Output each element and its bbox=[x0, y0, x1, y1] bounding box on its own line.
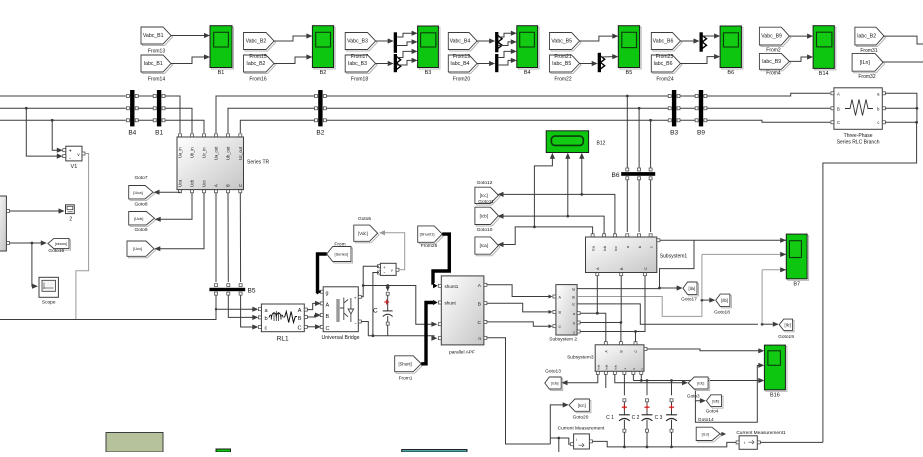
svg-text:Uc_out: Uc_out bbox=[238, 146, 243, 160]
svg-text:A: A bbox=[837, 91, 840, 96]
svg-text:Uc_in: Uc_in bbox=[202, 147, 207, 158]
svg-text:Goto8: Goto8 bbox=[134, 201, 147, 207]
svg-text:-: - bbox=[69, 156, 71, 162]
svg-text:Goto13: Goto13 bbox=[545, 369, 561, 375]
svg-text:Iabc_B1: Iabc_B1 bbox=[144, 61, 163, 67]
svg-text:From16: From16 bbox=[249, 76, 266, 82]
svg-text:[Icfc]: [Icfc] bbox=[697, 382, 704, 386]
svg-text:[Ila]: [Ila] bbox=[688, 286, 695, 291]
svg-text:Iabc_B6: Iabc_B6 bbox=[653, 61, 672, 67]
svg-text:+: + bbox=[354, 297, 357, 302]
svg-text:Icc: Icc bbox=[614, 246, 618, 251]
svg-text:i: i bbox=[744, 440, 745, 445]
svg-text:[Ilc]: [Ilc] bbox=[785, 322, 791, 327]
svg-text:B9: B9 bbox=[697, 129, 705, 136]
svg-text:shunt: shunt bbox=[445, 300, 457, 305]
svg-text:n: n bbox=[478, 337, 481, 342]
svg-text:C: C bbox=[238, 184, 243, 187]
svg-text:C 2: C 2 bbox=[632, 415, 640, 421]
svg-text:Series RLC Branch: Series RLC Branch bbox=[837, 140, 880, 146]
svg-text:RL1: RL1 bbox=[277, 335, 289, 342]
svg-text:B1: B1 bbox=[218, 70, 225, 76]
svg-text:B4: B4 bbox=[128, 129, 136, 136]
svg-text:B: B bbox=[619, 350, 623, 352]
svg-text:C: C bbox=[326, 326, 330, 332]
svg-text:From1: From1 bbox=[399, 376, 413, 382]
svg-text:c: c bbox=[573, 330, 575, 334]
svg-text:From32: From32 bbox=[858, 74, 875, 80]
svg-text:parallel APF: parallel APF bbox=[449, 349, 475, 355]
svg-text:Universal Bridge: Universal Bridge bbox=[321, 335, 359, 341]
svg-text:Uca: Uca bbox=[178, 179, 183, 187]
svg-text:C: C bbox=[644, 267, 648, 270]
svg-text:B5: B5 bbox=[248, 287, 256, 294]
svg-text:-: - bbox=[355, 321, 357, 327]
svg-text:B: B bbox=[478, 302, 481, 308]
svg-text:C 3: C 3 bbox=[655, 415, 663, 421]
svg-text:Iabc_B4: Iabc_B4 bbox=[450, 61, 469, 67]
svg-text:C: C bbox=[837, 120, 840, 125]
svg-text:B12: B12 bbox=[597, 141, 606, 147]
svg-text:c: c bbox=[877, 120, 879, 125]
svg-text:B: B bbox=[837, 106, 840, 111]
svg-text:From22: From22 bbox=[554, 76, 571, 82]
svg-text:B: B bbox=[226, 184, 231, 187]
svg-text:[ILn]: [ILn] bbox=[702, 432, 709, 436]
svg-text:[Series]: [Series] bbox=[335, 252, 349, 257]
svg-text:b: b bbox=[573, 321, 575, 325]
svg-text:Goto17: Goto17 bbox=[681, 297, 697, 303]
svg-text:Goto10: Goto10 bbox=[477, 227, 493, 233]
svg-text:B: B bbox=[298, 316, 302, 322]
svg-text:Vabc_B6: Vabc_B6 bbox=[653, 39, 674, 45]
svg-text:Series TR: Series TR bbox=[247, 160, 270, 166]
svg-text:Goto16: Goto16 bbox=[48, 248, 64, 254]
svg-text:B3: B3 bbox=[425, 70, 432, 76]
svg-text:[Ilb]: [Ilb] bbox=[721, 298, 728, 303]
svg-text:From20: From20 bbox=[453, 76, 470, 82]
svg-text:Icfa: Icfa bbox=[596, 364, 600, 369]
svg-text:[Ucc]: [Ucc] bbox=[133, 246, 142, 251]
svg-text:Vabc_B1: Vabc_B1 bbox=[143, 33, 164, 39]
svg-text:Subsystem1: Subsystem1 bbox=[660, 254, 688, 260]
svg-text:[Vdc]: [Vdc] bbox=[358, 231, 368, 236]
svg-text:C: C bbox=[297, 326, 301, 332]
svg-text:Goto12: Goto12 bbox=[477, 180, 493, 186]
svg-text:[Icfa]: [Icfa] bbox=[551, 382, 558, 386]
svg-text:Icb: Icb bbox=[603, 246, 607, 251]
svg-text:Ica: Ica bbox=[592, 245, 596, 251]
svg-text:V1: V1 bbox=[71, 164, 78, 170]
svg-text:[Icn]: [Icn] bbox=[578, 403, 586, 408]
svg-text:b: b bbox=[638, 246, 642, 248]
svg-text:Ub_out: Ub_out bbox=[226, 146, 231, 160]
svg-text:From17: From17 bbox=[351, 54, 368, 60]
svg-text:B2: B2 bbox=[320, 70, 327, 76]
svg-text:From31: From31 bbox=[860, 48, 877, 54]
svg-text:From19: From19 bbox=[453, 54, 470, 60]
svg-text:Goto5: Goto5 bbox=[358, 216, 371, 222]
svg-text:From15: From15 bbox=[249, 54, 266, 60]
svg-text:Ic: Ic bbox=[572, 303, 575, 307]
svg-text:From4: From4 bbox=[766, 71, 781, 77]
svg-text:[Ica]: [Ica] bbox=[480, 243, 488, 248]
svg-text:Goto9: Goto9 bbox=[134, 227, 147, 233]
svg-text:Ucc: Ucc bbox=[202, 180, 207, 187]
svg-text:Goto4: Goto4 bbox=[706, 409, 719, 414]
svg-text:Subsystem 2: Subsystem 2 bbox=[549, 336, 577, 342]
svg-text:2: 2 bbox=[69, 217, 72, 223]
svg-text:Iabc_B9: Iabc_B9 bbox=[762, 59, 781, 65]
svg-text:shunt1: shunt1 bbox=[445, 284, 459, 289]
svg-text:[Icfb]: [Icfb] bbox=[712, 399, 719, 403]
svg-text:A: A bbox=[326, 302, 330, 308]
svg-text:[ILn]: [ILn] bbox=[860, 60, 871, 66]
svg-text:A: A bbox=[214, 184, 219, 187]
svg-text:+: + bbox=[69, 149, 72, 155]
svg-text:Goto18: Goto18 bbox=[714, 310, 730, 316]
svg-text:[Uca]: [Uca] bbox=[133, 190, 142, 195]
svg-text:Icfb: Icfb bbox=[604, 364, 608, 369]
svg-text:B14: B14 bbox=[819, 71, 829, 77]
svg-text:Vabc_B3: Vabc_B3 bbox=[347, 39, 368, 45]
svg-text:From18: From18 bbox=[351, 76, 368, 82]
svg-text:Goto14: Goto14 bbox=[698, 417, 714, 423]
svg-text:Iabc_B2: Iabc_B2 bbox=[246, 61, 265, 67]
svg-text:From14: From14 bbox=[148, 76, 165, 82]
svg-text:From2: From2 bbox=[766, 47, 781, 53]
svg-text:Goto19: Goto19 bbox=[778, 334, 794, 340]
svg-text:B: B bbox=[326, 314, 330, 320]
svg-text:Iabc_B2: Iabc_B2 bbox=[857, 34, 876, 40]
svg-text:v: v bbox=[391, 268, 393, 273]
svg-text:Current Measurement1: Current Measurement1 bbox=[736, 430, 786, 436]
svg-text:Icfc: Icfc bbox=[613, 364, 617, 369]
svg-text:Goto3: Goto3 bbox=[687, 394, 700, 399]
svg-text:B2: B2 bbox=[316, 129, 324, 136]
svg-text:B3: B3 bbox=[670, 129, 678, 136]
svg-text:From13: From13 bbox=[148, 48, 165, 54]
svg-text:[Shunt1]: [Shunt1] bbox=[420, 232, 435, 237]
svg-text:Iabc_B3: Iabc_B3 bbox=[348, 61, 367, 67]
svg-text:[Shunt]: [Shunt] bbox=[398, 361, 411, 366]
svg-text:c: c bbox=[650, 246, 654, 248]
svg-text:Ib: Ib bbox=[572, 295, 575, 299]
svg-text:Goto11: Goto11 bbox=[478, 199, 494, 205]
svg-text:C: C bbox=[373, 307, 378, 314]
svg-text:[sincos]: [sincos] bbox=[55, 242, 67, 246]
svg-text:i: i bbox=[576, 437, 577, 442]
svg-text:From24: From24 bbox=[656, 76, 673, 82]
svg-text:Goto20: Goto20 bbox=[573, 414, 589, 420]
svg-text:Current Measurement: Current Measurement bbox=[558, 425, 605, 431]
svg-text:c: c bbox=[265, 326, 268, 332]
svg-text:Vabc_B4: Vabc_B4 bbox=[450, 39, 471, 45]
svg-text:b: b bbox=[265, 316, 268, 322]
svg-text:B5: B5 bbox=[626, 70, 633, 76]
svg-text:From23: From23 bbox=[656, 54, 673, 60]
svg-text:B7: B7 bbox=[793, 281, 800, 287]
svg-text:B1: B1 bbox=[155, 129, 163, 136]
svg-text:A: A bbox=[298, 308, 302, 314]
svg-text:Ub_in: Ub_in bbox=[190, 147, 195, 158]
svg-text:From21: From21 bbox=[554, 54, 571, 60]
svg-text:Scope: Scope bbox=[42, 300, 56, 306]
svg-text:Three-Phase: Three-Phase bbox=[844, 133, 873, 139]
svg-text:Ua_in: Ua_in bbox=[178, 147, 183, 158]
svg-text:From25: From25 bbox=[421, 243, 438, 249]
svg-text:Ua_out: Ua_out bbox=[214, 146, 219, 160]
svg-text:C: C bbox=[478, 320, 482, 326]
svg-text:Vabc_B9: Vabc_B9 bbox=[761, 34, 782, 40]
svg-text:B6: B6 bbox=[727, 70, 734, 76]
svg-text:B6: B6 bbox=[612, 172, 620, 179]
svg-text:Vabc_B5: Vabc_B5 bbox=[551, 39, 572, 45]
svg-text:[Icb]: [Icb] bbox=[480, 213, 488, 218]
svg-text:Vabc_B2: Vabc_B2 bbox=[246, 39, 267, 45]
svg-text:C 1: C 1 bbox=[606, 415, 614, 421]
svg-text:Ia: Ia bbox=[572, 287, 575, 291]
svg-text:B16: B16 bbox=[770, 392, 780, 398]
svg-text:[Ucb]: [Ucb] bbox=[134, 216, 143, 221]
svg-text:Goto7: Goto7 bbox=[134, 175, 147, 181]
svg-text:Ucb: Ucb bbox=[190, 179, 195, 187]
svg-text:g: g bbox=[326, 291, 329, 297]
svg-text:a: a bbox=[573, 312, 575, 316]
svg-text:C: C bbox=[559, 325, 562, 329]
svg-text:Subsystem3: Subsystem3 bbox=[567, 355, 594, 361]
svg-text:B4: B4 bbox=[524, 70, 531, 76]
svg-text:Iabc_B5: Iabc_B5 bbox=[552, 61, 571, 67]
svg-text:[Icc]: [Icc] bbox=[480, 193, 488, 198]
